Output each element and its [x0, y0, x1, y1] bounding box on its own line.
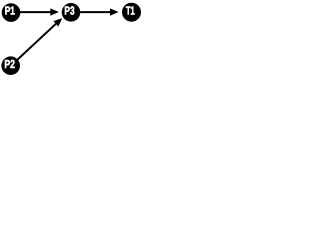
- node P3: [62, 3, 81, 22]
- svg-text:P2: P2: [4, 58, 15, 71]
- node T1: [122, 3, 141, 22]
- wire: edge P3 to T1: [80, 11, 110, 13]
- node P2: [1, 56, 20, 75]
- wire: edge P2 to P3 (diagonal): [18, 24, 56, 60]
- svg-text:P3: P3: [64, 5, 75, 18]
- arrowhead of edge P1 to P3: [50, 8, 59, 15]
- wire: edge P1 to P3: [20, 11, 51, 13]
- svg-text:P1: P1: [5, 5, 16, 18]
- arrowhead of edge P2 to P3: [53, 18, 62, 26]
- svg-text:T1: T1: [126, 5, 135, 18]
- background: [0, 0, 143, 78]
- arrowhead of edge P3 to T1: [110, 8, 119, 15]
- node P1: [2, 3, 21, 22]
